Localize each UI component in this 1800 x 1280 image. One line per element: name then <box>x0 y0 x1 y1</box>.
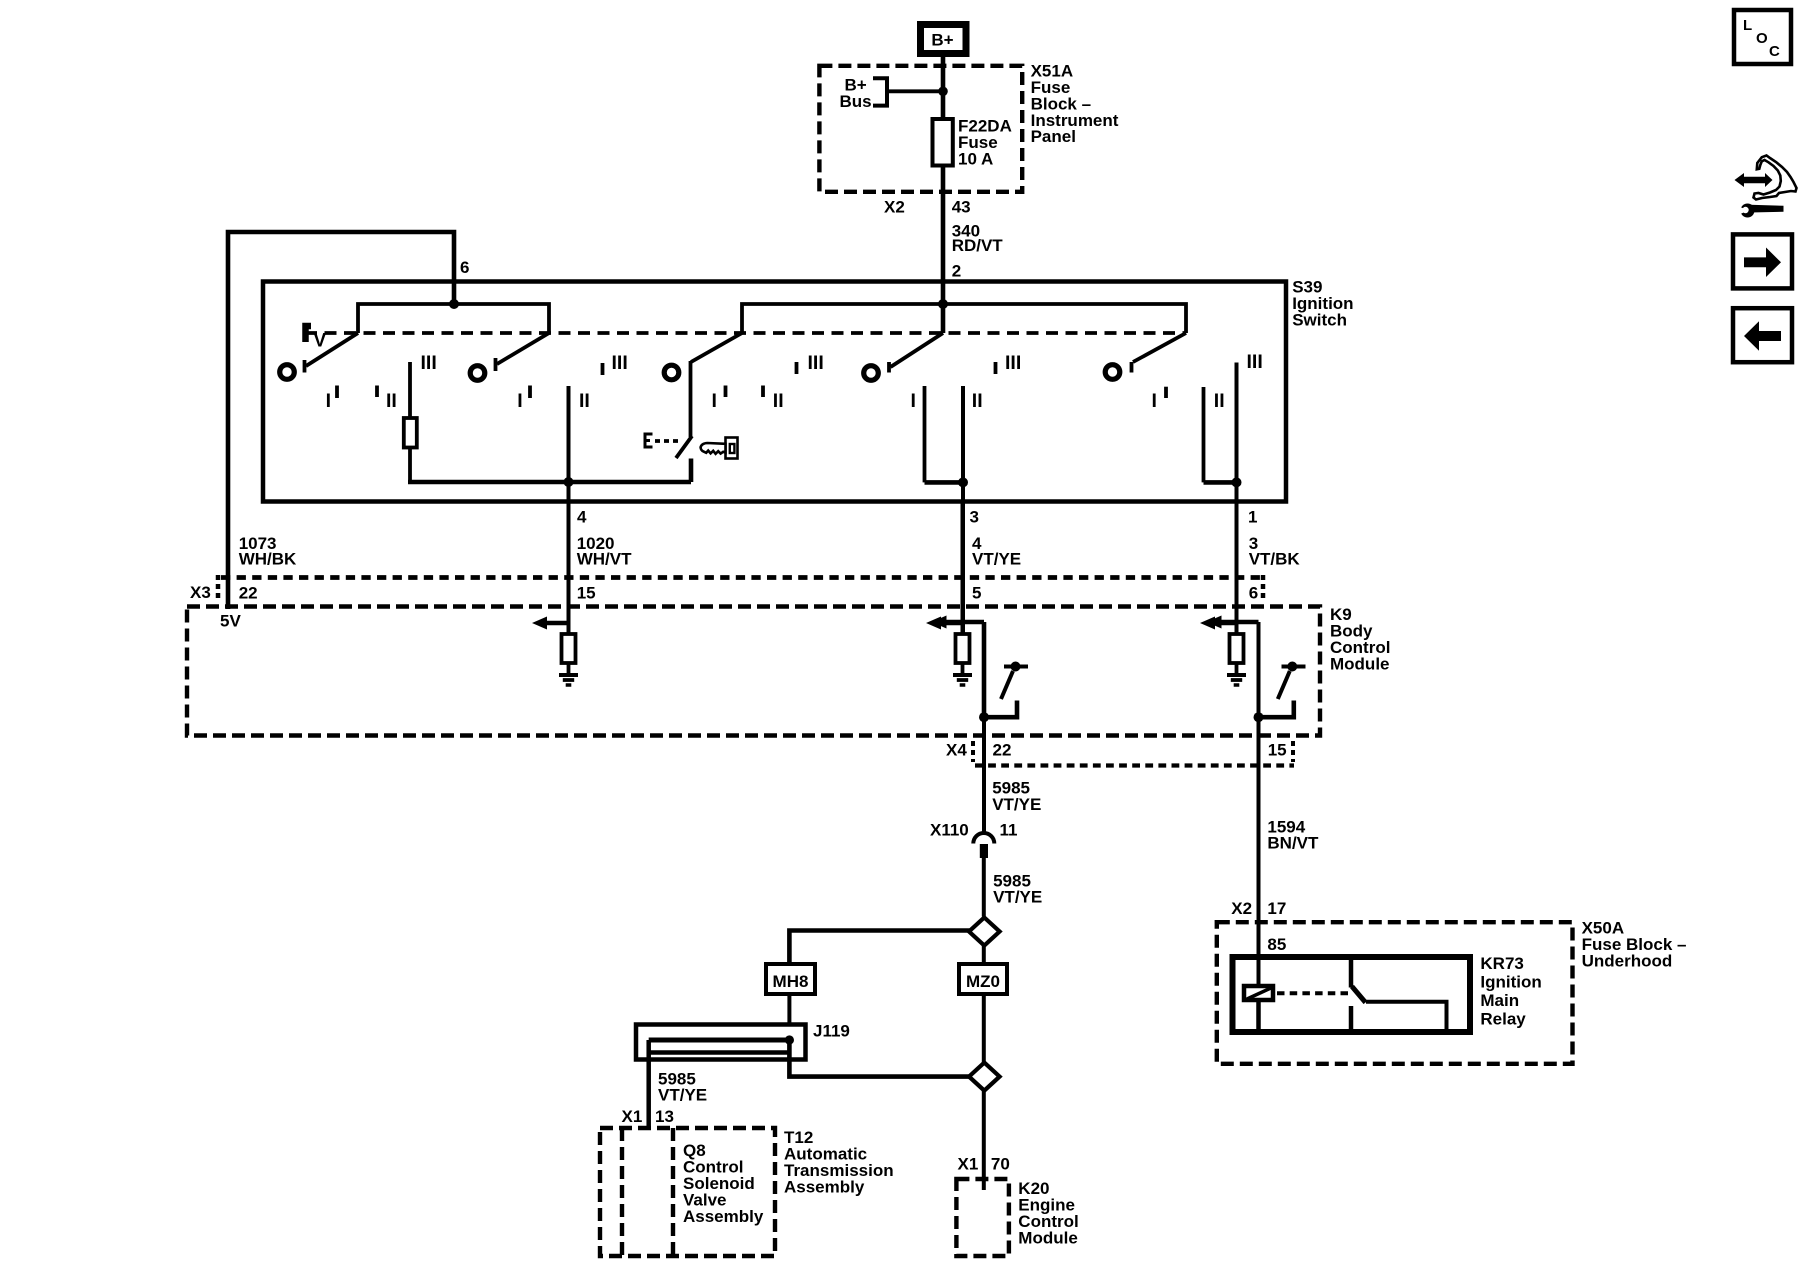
svg-text:70: 70 <box>991 1155 1010 1174</box>
svg-text:V: V <box>314 331 327 352</box>
svg-text:C: C <box>1769 43 1780 60</box>
svg-text:III: III <box>612 352 628 374</box>
svg-text:X1: X1 <box>622 1107 643 1126</box>
svg-text:III: III <box>421 352 437 374</box>
svg-text:Assembly: Assembly <box>683 1207 764 1226</box>
svg-text:II: II <box>972 390 983 412</box>
svg-text:4: 4 <box>577 508 587 527</box>
svg-text:MZ0: MZ0 <box>966 972 1000 991</box>
svg-text:KR73: KR73 <box>1480 954 1523 973</box>
svg-text:MH8: MH8 <box>773 972 809 991</box>
svg-text:3: 3 <box>970 508 979 527</box>
svg-text:III: III <box>1247 351 1263 373</box>
svg-text:I: I <box>911 390 916 412</box>
svg-text:85: 85 <box>1267 935 1286 954</box>
svg-text:X4: X4 <box>946 741 967 760</box>
svg-text:Module: Module <box>1018 1229 1078 1248</box>
svg-text:Main: Main <box>1480 991 1519 1010</box>
svg-text:BN/VT: BN/VT <box>1267 834 1319 853</box>
svg-text:VT/YE: VT/YE <box>992 795 1041 814</box>
svg-text:B+: B+ <box>931 31 953 50</box>
svg-text:Ignition: Ignition <box>1480 973 1541 992</box>
svg-text:Panel: Panel <box>1031 127 1076 146</box>
svg-text:Module: Module <box>1330 655 1390 674</box>
svg-text:I: I <box>712 390 717 412</box>
svg-text:I: I <box>326 390 331 412</box>
svg-text:6: 6 <box>1249 583 1258 602</box>
svg-text:22: 22 <box>239 583 258 602</box>
svg-text:15: 15 <box>1268 741 1287 760</box>
svg-text:X2: X2 <box>1231 899 1252 918</box>
svg-text:Underhood: Underhood <box>1582 952 1673 971</box>
svg-text:5V: 5V <box>220 612 241 631</box>
svg-text:1: 1 <box>1248 508 1257 527</box>
svg-text:22: 22 <box>993 741 1012 760</box>
svg-text:O: O <box>1756 30 1768 47</box>
svg-text:WH/BK: WH/BK <box>239 550 297 569</box>
svg-text:J119: J119 <box>813 1022 850 1041</box>
svg-text:RD/VT: RD/VT <box>952 236 1004 255</box>
svg-text:6: 6 <box>460 258 469 277</box>
svg-text:L: L <box>1743 17 1752 34</box>
svg-text:43: 43 <box>952 197 971 216</box>
svg-text:II: II <box>1214 390 1225 412</box>
svg-text:II: II <box>579 390 590 412</box>
svg-text:III: III <box>1005 352 1021 374</box>
svg-text:X3: X3 <box>190 583 211 602</box>
svg-text:I: I <box>517 390 522 412</box>
svg-text:10 A: 10 A <box>958 150 993 169</box>
svg-text:VT/YE: VT/YE <box>993 888 1042 907</box>
svg-text:X2: X2 <box>884 197 905 216</box>
svg-text:15: 15 <box>577 583 596 602</box>
svg-text:17: 17 <box>1267 899 1286 918</box>
svg-text:Switch: Switch <box>1292 311 1347 330</box>
svg-text:III: III <box>808 352 824 374</box>
svg-text:VT/YE: VT/YE <box>972 550 1021 569</box>
svg-text:VT/YE: VT/YE <box>658 1086 707 1105</box>
svg-text:11: 11 <box>1000 821 1018 840</box>
svg-text:VT/BK: VT/BK <box>1249 550 1301 569</box>
svg-text:13: 13 <box>655 1107 674 1126</box>
svg-text:5: 5 <box>972 583 981 602</box>
svg-text:Assembly: Assembly <box>784 1178 865 1197</box>
svg-text:Bus: Bus <box>840 92 872 111</box>
svg-text:X1: X1 <box>958 1155 979 1174</box>
svg-text:II: II <box>773 390 784 412</box>
svg-text:I: I <box>1152 390 1157 412</box>
svg-text:WH/VT: WH/VT <box>577 550 632 569</box>
svg-text:2: 2 <box>952 261 961 280</box>
svg-text:II: II <box>386 390 397 412</box>
svg-text:Relay: Relay <box>1480 1010 1526 1029</box>
svg-text:X110: X110 <box>930 821 969 840</box>
